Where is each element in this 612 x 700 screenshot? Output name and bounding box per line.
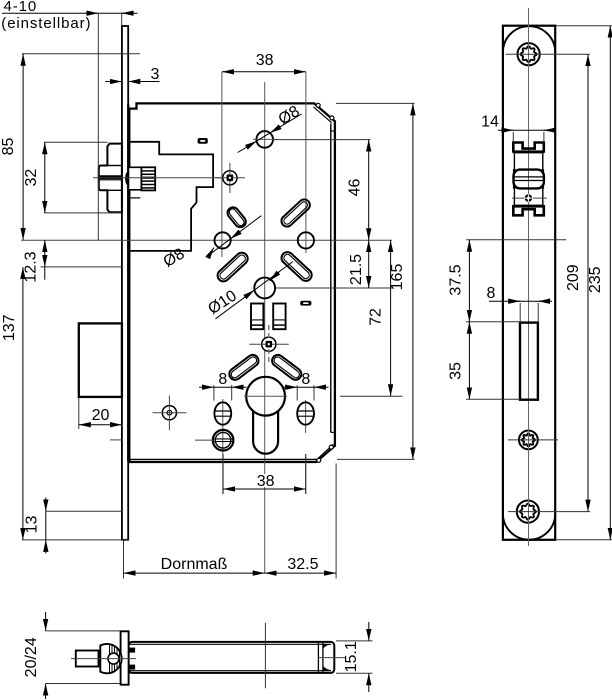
dim 137 (22, 267, 24, 540)
oval hole right (297, 402, 314, 424)
svg-text:(einstellbar): (einstellbar) (1, 15, 91, 32)
dim 32.5 (335, 464, 337, 579)
slot cylinder-left (229, 355, 258, 380)
svg-text:165: 165 (389, 264, 406, 291)
cross screw lower (262, 337, 276, 351)
bottom-right chamfer detail with pins (318, 444, 334, 459)
slot cylinder-right (272, 355, 301, 380)
svg-text:37.5: 37.5 (448, 264, 465, 295)
rounded end arc bottom (503, 514, 555, 540)
leader D10 (216, 262, 294, 319)
deadbolt cutout front view (520, 323, 538, 400)
dim 85 (22, 53, 140, 55)
slot small upper-left (227, 207, 245, 227)
oval hole left (214, 402, 231, 424)
bottom view: adjustable collar (100, 644, 121, 673)
svg-text:20: 20 (92, 407, 110, 424)
dim 20 (78, 398, 80, 429)
latch tail block (129, 167, 141, 190)
svg-text:32.5: 32.5 (287, 556, 318, 573)
slot hole right (dark) (300, 301, 311, 306)
case inner wall bottom (130, 458, 318, 460)
svg-text:38: 38 (256, 52, 274, 69)
leader D8 left (206, 216, 261, 258)
dim 14 (512, 132, 514, 144)
dim 46 (274, 139, 371, 141)
dim 20/24 (46, 630, 120, 632)
dim 37.5 (466, 239, 566, 241)
internal mechanism outline (129, 142, 213, 251)
dim 8 right of cylinder (296, 385, 298, 400)
bottom view: faceplate end (121, 631, 129, 684)
bottom view: centerlines (264, 623, 266, 688)
screw centerlines right view (506, 53, 590, 55)
centerline vertical right (305, 72, 307, 253)
svg-text:235: 235 (587, 266, 604, 293)
case inner wall right (330, 124, 332, 433)
latch bolt head (99, 144, 122, 213)
latch guide tick (128, 197, 141, 199)
centerline vertical middle (cylinder axis) (264, 82, 266, 474)
dim 8 left of cylinder (213, 385, 215, 400)
dim 235 (557, 25, 612, 27)
svg-text:Dornmaß: Dornmaß (161, 556, 228, 573)
bottom view: latch shaft (76, 651, 99, 667)
torx screw top (518, 43, 540, 65)
svg-text:12.3: 12.3 (23, 251, 40, 282)
slot hole top (dark) (198, 138, 208, 144)
slot lower-right (282, 252, 312, 281)
svg-text:38: 38 (257, 473, 275, 490)
svg-text:14: 14 (481, 113, 499, 130)
lock case outline (129, 103, 335, 462)
fixing screw hole left (162, 406, 176, 420)
centerline horizontal follower axis (21, 239, 392, 241)
centerline left oval axis (222, 399, 224, 494)
latch spring block (141, 167, 155, 190)
hole D8 left (215, 232, 231, 248)
deadbolt (79, 323, 122, 397)
dim 165 (336, 102, 415, 104)
centerline right oval axis (305, 400, 307, 433)
faceplate front outline (503, 26, 555, 540)
svg-text:8: 8 (487, 285, 496, 302)
dim 38 top (222, 71, 306, 73)
svg-text:20/24: 20/24 (23, 637, 40, 677)
ring hole left (213, 430, 234, 451)
rounded end arc top (503, 26, 555, 52)
dim 12.3 (41, 266, 122, 268)
dim 35 (466, 398, 520, 400)
hole D10 (254, 278, 275, 299)
torx screw bottom (517, 501, 539, 523)
slot lower-left (218, 253, 248, 282)
slot upper-right (281, 199, 309, 226)
top-right chamfer detail with pins (313, 107, 331, 123)
latch shaft through plate (dark) (125, 171, 133, 186)
dim Dornmass (123, 541, 125, 579)
cylinder clamp plates (251, 304, 263, 330)
svg-text:32: 32 (23, 169, 40, 187)
dim 13 (46, 510, 122, 512)
latch front: top castellation (513, 143, 544, 153)
dim 72 (340, 395, 403, 397)
dim 21.5 (276, 287, 392, 289)
svg-text:13: 13 (23, 516, 40, 534)
centerline horizontal latch axis (93, 177, 239, 179)
latch bevel lines (99, 175, 122, 177)
svg-text:137: 137 (1, 314, 18, 341)
svg-text:3: 3 (151, 66, 160, 83)
svg-text:21.5: 21.5 (348, 254, 365, 285)
dim 209 (587, 54, 589, 511)
dim 38 bottom (222, 454, 224, 494)
latch front view: side edges (513, 153, 515, 169)
faceplate front view centerline (528, 8, 530, 546)
svg-text:15.1: 15.1 (343, 641, 360, 672)
svg-text:46: 46 (347, 179, 364, 197)
euro profile cylinder hole (246, 377, 285, 416)
svg-text:8: 8 (301, 371, 310, 388)
leader D8 top (238, 114, 302, 153)
svg-text:35: 35 (448, 362, 465, 380)
dim 15.1 (336, 640, 373, 642)
svg-text:8: 8 (218, 371, 227, 388)
hole D8 right (298, 232, 314, 248)
latch front: bevel band (513, 169, 516, 172)
svg-text:85: 85 (0, 138, 17, 156)
dim 32 (44, 141, 108, 143)
bottom view: case body (129, 642, 335, 673)
hole D8 top (256, 131, 273, 148)
svg-text:209: 209 (565, 264, 582, 291)
centerline vertical left (38 top / screw holes axis) (221, 72, 223, 257)
svg-text:72: 72 (367, 308, 384, 326)
cross screw upper (223, 171, 237, 185)
faceplate side view (122, 26, 128, 540)
latch front: pin circle (512, 197, 547, 199)
latch front: bottom castellation (513, 205, 544, 208)
dim 8 right view (519, 303, 521, 323)
middle screw (519, 431, 538, 450)
